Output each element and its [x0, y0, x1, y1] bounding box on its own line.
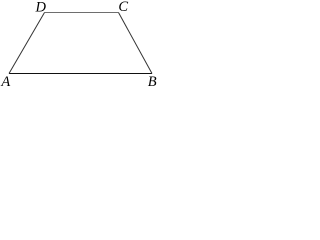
svg-text:D: D	[35, 0, 47, 16]
side BC (right leg)	[119, 13, 153, 74]
svg-text:B: B	[148, 74, 157, 89]
side DC (top)	[45, 12, 119, 14]
svg-text:A: A	[0, 74, 10, 89]
side AB (bottom)	[9, 73, 152, 75]
side AD (left leg)	[9, 13, 45, 74]
svg-text:C: C	[118, 0, 128, 15]
